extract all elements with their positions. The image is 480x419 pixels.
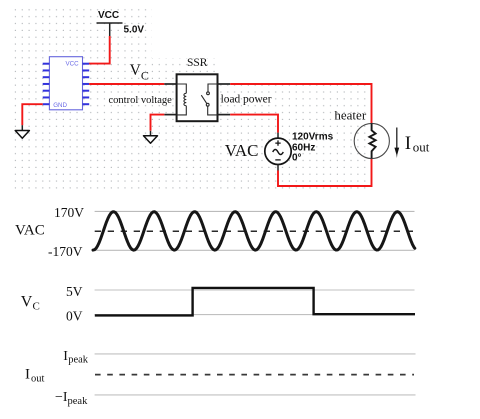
wire SSR input low to ground bbox=[151, 115, 177, 131]
plot VC: label VC bbox=[21, 293, 40, 312]
svg-text:-170V: -170V bbox=[48, 244, 83, 259]
svg-text:V: V bbox=[130, 62, 142, 79]
plot VAC: gridline +170 bbox=[95, 210, 415, 212]
source V1 VAC 120Vrms 60Hz 0deg bbox=[265, 132, 334, 165]
waveform VAC sine bbox=[93, 212, 415, 250]
waveform VC pulse bbox=[95, 288, 415, 316]
plot Iout: label Iout bbox=[25, 366, 45, 384]
svg-text:I: I bbox=[25, 366, 30, 382]
plot Iout: gridline -Ipeak bbox=[95, 394, 416, 396]
ground symbol GND1 bbox=[15, 125, 29, 138]
svg-text:−I: −I bbox=[55, 390, 68, 405]
wire SSR output low to VAC source bbox=[218, 115, 279, 139]
wire U1 GND to ground bbox=[22, 104, 42, 125]
svg-text:C: C bbox=[33, 301, 40, 313]
svg-text:0°: 0° bbox=[292, 153, 302, 164]
svg-text:out: out bbox=[31, 374, 45, 385]
svg-text:control voltage: control voltage bbox=[109, 95, 173, 106]
plot Iout: zero dashed line bbox=[95, 374, 414, 376]
svg-text:170V: 170V bbox=[54, 205, 84, 220]
ground symbol GND2 bbox=[144, 131, 158, 143]
plot VC: gridline 0V bbox=[95, 314, 415, 316]
svg-text:VCC: VCC bbox=[66, 60, 80, 67]
relay SSR box bbox=[177, 57, 218, 121]
svg-text:VAC: VAC bbox=[15, 223, 45, 239]
svg-text:I: I bbox=[405, 133, 411, 154]
resistor heater bbox=[334, 107, 389, 158]
SSR coil (input side) bbox=[177, 84, 187, 115]
power VCC 5.0V bbox=[97, 10, 145, 36]
plot Iout: label -Ipeak bbox=[55, 390, 88, 407]
wire SSR output high to heater (top run) bbox=[218, 84, 372, 124]
wire VCC to U1 pin bbox=[89, 36, 110, 64]
svg-text:0V: 0V bbox=[66, 309, 83, 324]
svg-text:SSR: SSR bbox=[187, 57, 208, 69]
plot VAC: gridline -170 bbox=[95, 249, 415, 251]
svg-text:120Vrms: 120Vrms bbox=[292, 132, 334, 143]
svg-text:5V: 5V bbox=[66, 284, 83, 299]
wire VC control: U1 to SSR bbox=[89, 83, 176, 85]
svg-text:load power: load power bbox=[221, 93, 272, 105]
svg-text:VCC: VCC bbox=[98, 10, 119, 21]
node VC label bbox=[130, 62, 149, 82]
svg-text:5.0V: 5.0V bbox=[124, 25, 145, 36]
plot Iout: label Ipeak bbox=[63, 349, 88, 366]
SSR switch (output side) bbox=[201, 84, 217, 115]
svg-text:peak: peak bbox=[68, 355, 89, 366]
current arrow Iout bbox=[394, 128, 429, 159]
svg-text:VAC: VAC bbox=[225, 141, 259, 160]
svg-text:C: C bbox=[141, 69, 149, 83]
wire VAC source to bottom run bbox=[278, 159, 372, 186]
svg-text:V: V bbox=[21, 293, 33, 310]
svg-text:heater: heater bbox=[334, 107, 366, 122]
plot VAC: zero dashed line bbox=[95, 230, 414, 232]
IC U1 microcontroller bbox=[43, 57, 89, 110]
svg-text:GND: GND bbox=[53, 102, 67, 109]
plot Iout: gridline +Ipeak bbox=[95, 353, 416, 355]
plot VC: gridline 5V bbox=[95, 289, 415, 291]
svg-text:peak: peak bbox=[68, 396, 89, 407]
svg-text:out: out bbox=[413, 140, 430, 155]
